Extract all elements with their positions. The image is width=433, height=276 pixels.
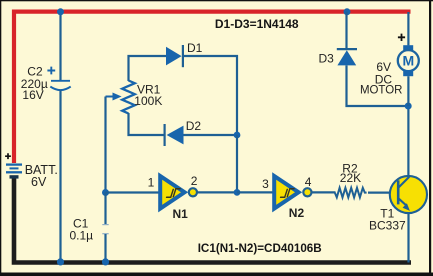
svg-text:M: M [402,53,414,69]
wire: N2 output to R2 [312,191,336,193]
node: C2 branch at ground rail [57,258,64,265]
label T1 BC337 [369,207,406,233]
label N2 [289,206,305,220]
svg-text:N2: N2 [289,206,305,220]
diode D1 [166,45,183,67]
label pin 4 [305,175,312,189]
label N1 [173,207,189,221]
label pin 3 [262,177,269,191]
svg-text:100K: 100K [134,94,162,108]
node: red rail / D3 branch [344,8,351,15]
label 6V DC MOTOR [360,60,403,97]
label D3 [319,51,335,65]
svg-text:BC337: BC337 [369,218,406,232]
label pin 1 [148,175,155,189]
wire: ground black rail (battery negative, left and bottom) [14,178,411,263]
svg-text:0.1µ: 0.1µ [70,229,94,243]
wire: junction to N2 input [237,191,273,193]
wire: VR1 top to D1 anode [129,56,167,81]
wire: N1 input [106,191,160,193]
svg-text:N1: N1 [173,207,189,221]
node: motor / collector junction [405,103,412,110]
wire: C2 branch from red rail [59,12,61,80]
label BATT. 6V [25,163,58,189]
wire: motor branch from red rail [407,12,409,45]
svg-text:2: 2 [191,174,198,188]
svg-text:6V: 6V [31,175,47,189]
node: D2 / feedback junction [234,132,241,139]
label R2 22K [340,162,361,186]
node: N1 output junction [234,189,241,196]
motor terminal top [403,45,413,51]
wire: C1 to ground rail [104,234,106,263]
diode D2 [165,124,184,146]
svg-text:D1-D3=1N4148: D1-D3=1N4148 [215,17,299,31]
svg-text:3: 3 [262,177,269,191]
wire: D3 anode down and right to motor junction [347,66,408,107]
wire: T1 collector up to motor junction [407,106,409,176]
svg-text:D3: D3 [319,51,335,65]
potentiometer VR1 [106,81,135,114]
svg-text:1: 1 [148,175,155,189]
diode D3 [337,49,357,65]
motor terminal bottom [403,70,413,76]
label pin 2 [191,174,198,188]
wire: motor bottom terminal to junction [407,76,409,106]
wire: T1 emitter down to ground rail [407,213,409,263]
wire: D1 cathode to feedback line, down to D2 junction [184,56,237,135]
svg-text:D2: D2 [186,119,202,133]
svg-text:16V: 16V [22,88,43,102]
label D2 [186,119,202,133]
label + (motor polarity) [398,34,405,41]
capacitor C1 [102,225,108,234]
wire: N1 output to feedback junction [197,191,237,193]
wire: VR1 bottom to D2 cathode [129,113,165,135]
wire: D2 anode to feedback line [184,134,237,136]
svg-text:4: 4 [305,175,312,189]
motor M (6V DC motor) [398,50,419,71]
label C2 220µ 16V [21,65,48,102]
annotation D1-D3=1N4148 [215,17,299,31]
svg-text:D1: D1 [187,41,203,55]
wire: junction down to C1 [104,193,106,225]
svg-text:22K: 22K [340,171,361,185]
label C1 0.1µ [70,217,94,243]
svg-text:IC1(N1-N2)=CD40106B: IC1(N1-N2)=CD40106B [198,241,322,255]
label VR1 100K [134,82,162,108]
wire: +6V red rail (battery positive, left and top) [14,12,411,163]
inverter N1 (Schmitt trigger) [160,176,197,209]
node: red rail / C2 branch [57,8,64,15]
transistor T1 [390,176,427,213]
wire: C2 to ground rail [59,91,61,263]
node: N1 input junction [102,189,109,196]
wire: VR1 wiper down to N1 input junction [104,97,106,193]
svg-text:MOTOR: MOTOR [360,83,403,97]
inverter N2 (Schmitt trigger) [274,176,311,209]
wire: D3 branch from red rail [345,12,347,49]
battery BATT. 6V [5,153,22,177]
annotation IC1(N1-N2)=CD40106B [198,241,322,255]
node: C1 branch at ground rail [102,258,109,265]
label D1 [187,41,203,55]
capacitor C2 [47,67,70,91]
wire: feedback line down to N1 output [236,135,238,192]
resistor R2 [335,188,367,198]
wire: R2 to T1 base [368,192,397,194]
